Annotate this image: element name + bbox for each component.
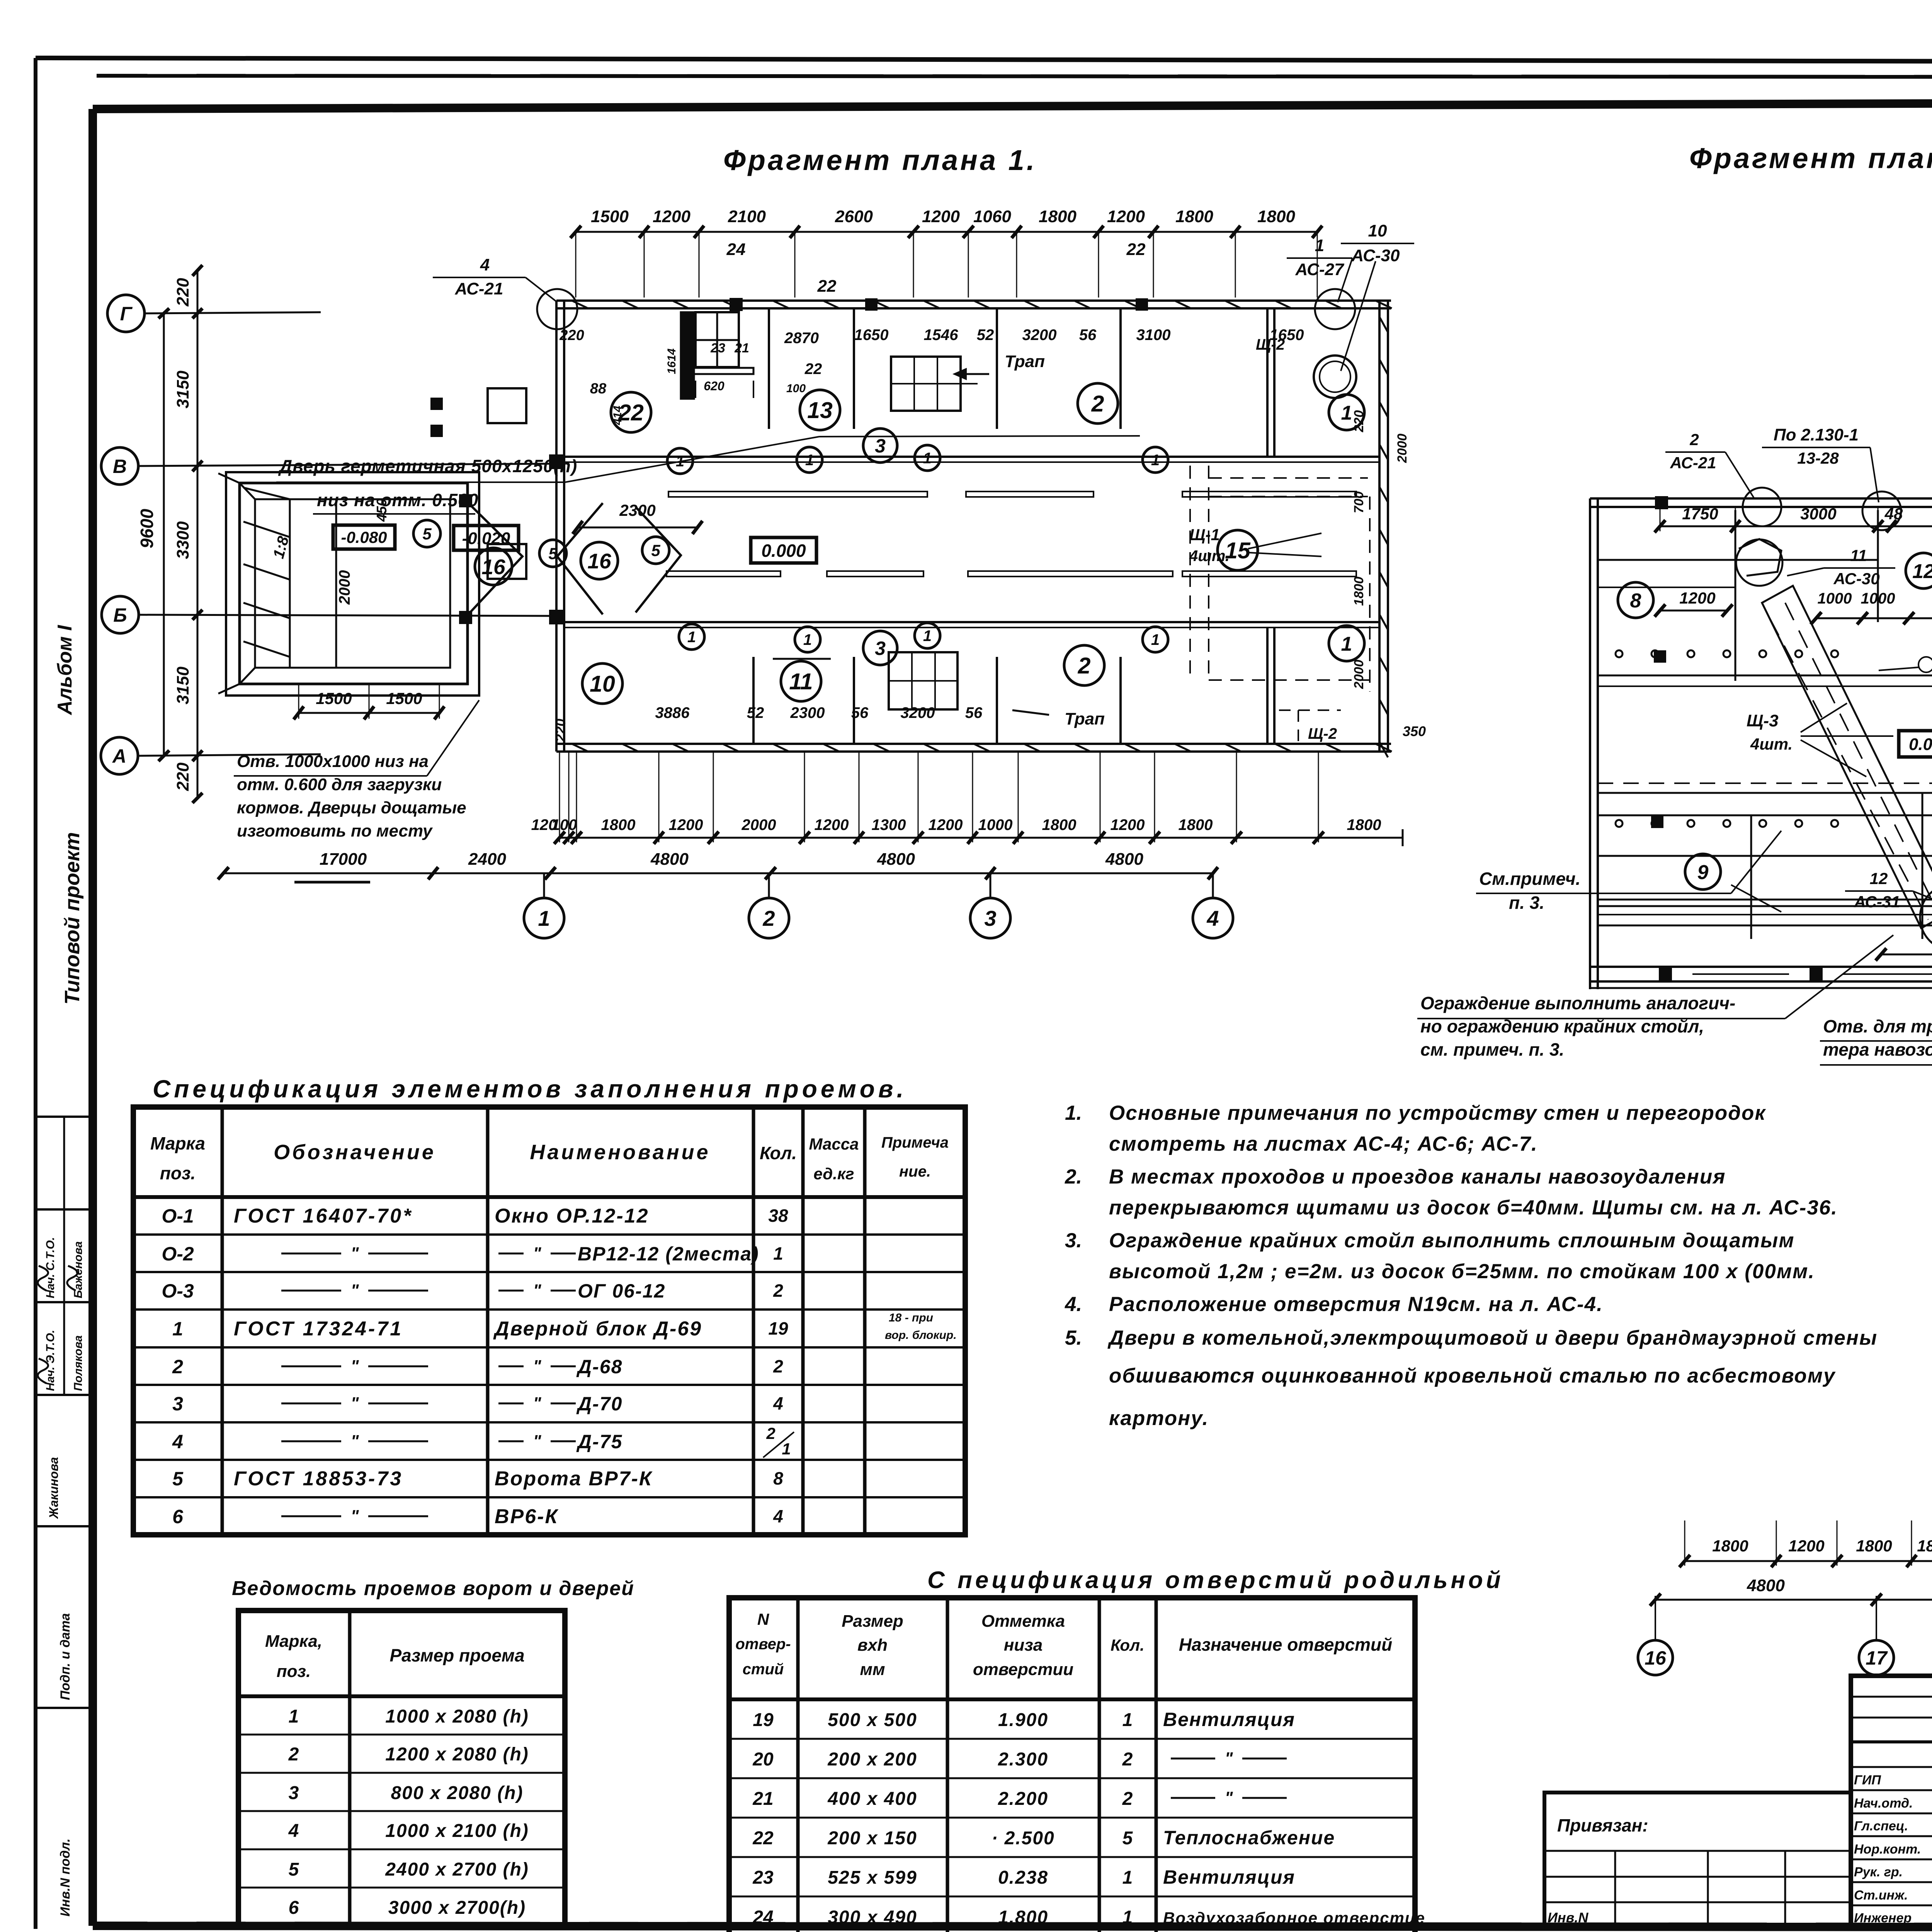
svg-text:220: 220 <box>559 327 584 344</box>
svg-text:Инв.N: Инв.N <box>1548 1910 1588 1925</box>
svg-text:2000: 2000 <box>1352 660 1366 689</box>
svg-text:1000 x 2100 (h): 1000 x 2100 (h) <box>385 1821 529 1841</box>
svg-text:Спецификация элементов заполне: Спецификация элементов заполнения проемо… <box>153 1075 907 1103</box>
svg-text:Д-75: Д-75 <box>576 1431 622 1452</box>
svg-text:В местах проходов и проездов: В местах проходов и проездов каналы наво… <box>1109 1165 1726 1188</box>
svg-text:4800: 4800 <box>1105 850 1143 869</box>
plan2 conveyor top circle <box>1736 539 1782 586</box>
svg-text:низ на отм. 0.500: низ на отм. 0.500 <box>317 490 478 510</box>
table spec elements grid <box>133 1107 965 1535</box>
svg-text:ние.: ние. <box>899 1163 931 1180</box>
plan1 bottom dimension chain detail <box>560 837 1318 839</box>
svg-text:О-2: О-2 <box>162 1243 194 1265</box>
svg-text:16: 16 <box>481 555 505 579</box>
plan1 column circle top left <box>537 289 577 329</box>
svg-text:38: 38 <box>768 1206 788 1226</box>
plan1 top exterior wall <box>556 299 1391 302</box>
svg-text:поз.: поз. <box>160 1163 196 1183</box>
svg-text:1750: 1750 <box>1682 505 1718 523</box>
svg-text:Воздухозаборное отверстие: Воздухозаборное отверстие <box>1163 1909 1425 1927</box>
svg-text:тера навозоудаления: тера навозоудаления <box>1823 1039 1932 1060</box>
svg-text:кормов. Дверцы дощатые: кормов. Дверцы дощатые <box>237 798 466 817</box>
svg-text:Отметка: Отметка <box>981 1612 1065 1631</box>
svg-text:19: 19 <box>753 1710 774 1730</box>
svg-text:9600: 9600 <box>137 509 157 548</box>
svg-text:Фрагмент плана 1.: Фрагмент плана 1. <box>723 144 1037 176</box>
svg-text:10: 10 <box>1368 221 1387 240</box>
svg-text:": " <box>533 1244 542 1263</box>
svg-text:1: 1 <box>1341 633 1352 655</box>
svg-text:ГОСТ 16407-70*: ГОСТ 16407-70* <box>234 1205 413 1227</box>
plan1 row bubble В <box>101 447 138 485</box>
plan1 room bubble 15 <box>1218 530 1258 570</box>
svg-text:4800: 4800 <box>877 850 915 869</box>
plan1 door mark bubbles 1 lower corridor <box>679 624 704 650</box>
svg-text:Ст.инж.: Ст.инж. <box>1854 1888 1908 1903</box>
svg-text:19: 19 <box>768 1318 788 1338</box>
plan1 door mark bubbles 1 upper corridor <box>667 448 693 474</box>
plan1 annex junction squares <box>460 495 471 507</box>
svg-text:200 x 200: 200 x 200 <box>827 1749 917 1770</box>
svg-text:1: 1 <box>1122 1710 1133 1730</box>
svg-text:100: 100 <box>551 816 577 833</box>
svg-text:220: 220 <box>173 278 192 307</box>
svg-text:88: 88 <box>590 381 607 397</box>
svg-text:Фрагмент плана 2: Фрагмент плана 2 <box>1689 142 1932 174</box>
svg-text:1800: 1800 <box>1347 816 1381 833</box>
plan2 left wing left wall <box>1589 498 1591 989</box>
svg-text:12: 12 <box>1912 560 1932 583</box>
svg-text:Вентиляция: Вентиляция <box>1163 1866 1295 1888</box>
svg-text:": " <box>351 1507 359 1526</box>
plan1 row bubble Б <box>102 596 139 633</box>
svg-text:5: 5 <box>1122 1828 1133 1849</box>
plan1 row bubble А <box>101 737 138 774</box>
svg-text:Д-68: Д-68 <box>576 1356 622 1378</box>
svg-text:1.800: 1.800 <box>998 1907 1048 1928</box>
plan1 shchit-2 octagon <box>1314 355 1356 398</box>
svg-text:изготовить по месту: изготовить по месту <box>237 821 433 840</box>
svg-text:1: 1 <box>1315 236 1324 255</box>
svg-text:Примеча: Примеча <box>881 1134 949 1151</box>
svg-text:1500: 1500 <box>386 689 422 707</box>
svg-text:4.: 4. <box>1065 1293 1082 1316</box>
title block main box <box>1851 1676 1932 1928</box>
svg-text:11: 11 <box>789 669 813 694</box>
svg-text:Основные примечания по устр: Основные примечания по устройству стен и… <box>1109 1102 1766 1124</box>
svg-text:1200: 1200 <box>1788 1537 1824 1555</box>
svg-text:1800: 1800 <box>1712 1537 1748 1555</box>
svg-text:1546: 1546 <box>924 327 959 344</box>
svg-text:": " <box>351 1281 359 1300</box>
svg-text:1300: 1300 <box>872 816 906 833</box>
svg-text:5: 5 <box>548 544 558 563</box>
svg-text:200 x 150: 200 x 150 <box>827 1828 917 1849</box>
svg-text:800 x 2080 (h): 800 x 2080 (h) <box>391 1783 524 1803</box>
svg-text:1: 1 <box>1151 631 1160 648</box>
svg-text:2.300: 2.300 <box>998 1749 1048 1770</box>
svg-text:Щ-3: Щ-3 <box>1747 711 1779 730</box>
svg-text:1200: 1200 <box>669 816 703 833</box>
svg-text:По 2.130-1: По 2.130-1 <box>1774 425 1859 444</box>
svg-text:1800: 1800 <box>1917 1537 1932 1555</box>
plan2 bubble 12 <box>1906 553 1932 588</box>
svg-text:высотой 1,2м ; е=2м. из дос: высотой 1,2м ; е=2м. из досок б=25мм. по… <box>1109 1260 1815 1283</box>
svg-text:2400 x 2700 (h): 2400 x 2700 (h) <box>385 1859 529 1880</box>
svg-text:ВР12-12 (2места): ВР12-12 (2места) <box>578 1243 759 1265</box>
plan1 column circle top right <box>1315 289 1355 329</box>
plan1 right exterior wall <box>1378 301 1381 752</box>
svg-text:5: 5 <box>422 525 432 543</box>
plan2 conveyor incline <box>1762 586 1932 928</box>
svg-text:Размер: Размер <box>842 1612 903 1631</box>
svg-text:220: 220 <box>553 719 568 742</box>
svg-text:2: 2 <box>773 1356 783 1376</box>
plan1 corridor lower partition <box>564 621 1379 623</box>
svg-text:Дверной блок Д-69: Дверной блок Д-69 <box>493 1318 702 1340</box>
svg-text:1500: 1500 <box>591 207 629 226</box>
svg-text:ГОСТ 17324-71: ГОСТ 17324-71 <box>234 1318 403 1340</box>
svg-text:2.: 2. <box>1065 1165 1082 1188</box>
svg-text:5: 5 <box>289 1859 299 1880</box>
plan1 row bubble Г <box>107 295 145 332</box>
svg-text:13-28: 13-28 <box>1797 449 1839 467</box>
svg-text:1800: 1800 <box>1175 207 1213 226</box>
svg-text:ед.кг: ед.кг <box>813 1165 854 1183</box>
svg-text:1.900: 1.900 <box>998 1710 1048 1730</box>
svg-text:Нач. С.Т.О.: Нач. С.Т.О. <box>44 1237 57 1298</box>
svg-text:-0.080: -0.080 <box>341 528 387 546</box>
svg-text:2400: 2400 <box>468 850 506 869</box>
svg-text:48: 48 <box>1884 505 1903 523</box>
svg-text:Отв. 1000x1000 низ на: Отв. 1000x1000 низ на <box>237 752 429 771</box>
svg-text:Отв. для транспор-: Отв. для транспор- <box>1823 1016 1932 1036</box>
svg-text:1800: 1800 <box>1352 577 1366 606</box>
svg-text:Кол.: Кол. <box>760 1143 797 1163</box>
svg-text:1800: 1800 <box>1042 816 1077 833</box>
svg-text:": " <box>533 1281 542 1300</box>
svg-text:Кол.: Кол. <box>1111 1636 1145 1654</box>
svg-text:1: 1 <box>923 628 932 645</box>
svg-text:2: 2 <box>773 1281 783 1301</box>
svg-text:": " <box>1225 1749 1233 1768</box>
svg-text:1200: 1200 <box>815 816 849 833</box>
svg-text:3: 3 <box>172 1393 183 1415</box>
plan1 annex outline <box>226 472 479 696</box>
svg-text:Размер проема: Размер проема <box>389 1645 524 1665</box>
svg-text:Рук. гр.: Рук. гр. <box>1854 1865 1903 1879</box>
svg-text:620: 620 <box>704 379 724 393</box>
svg-text:52: 52 <box>977 327 994 344</box>
svg-text:В: В <box>113 456 127 477</box>
plan2 left wing top exterior wall <box>1590 497 1932 500</box>
svg-text:3100: 3100 <box>1136 327 1171 344</box>
svg-text:56: 56 <box>851 704 869 721</box>
svg-text:но ограждению крайних стойл,: но ограждению крайних стойл, <box>1420 1016 1704 1036</box>
svg-text:Ведомость проемов ворот и двер: Ведомость проемов ворот и дверей <box>232 1577 634 1600</box>
plan1 electric room detail block <box>681 312 694 399</box>
plan1 level mark -0.020 <box>454 526 519 550</box>
svg-text:21: 21 <box>734 341 749 355</box>
svg-text:· 2.500: · 2.500 <box>992 1828 1054 1849</box>
svg-text:56: 56 <box>965 704 983 721</box>
svg-text:1200: 1200 <box>929 816 963 833</box>
svg-text:Расположение отверстия N19см: Расположение отверстия N19см. на л. АС-4… <box>1109 1293 1603 1316</box>
svg-text:2: 2 <box>1689 430 1699 449</box>
svg-text:21: 21 <box>752 1789 773 1809</box>
svg-text:20: 20 <box>752 1749 774 1770</box>
svg-text:1: 1 <box>923 450 932 467</box>
svg-text:16: 16 <box>587 549 611 573</box>
svg-text:Инженер: Инженер <box>1854 1911 1912 1925</box>
svg-text:1800: 1800 <box>1179 816 1213 833</box>
svg-text:1614: 1614 <box>665 348 678 374</box>
svg-text:1000: 1000 <box>1818 590 1852 607</box>
svg-text:смотреть на листах АС-4; А: смотреть на листах АС-4; АС-6; АС-7. <box>1109 1133 1538 1155</box>
svg-text:3: 3 <box>875 435 886 457</box>
plan2 left wing bottom wall <box>1590 966 1932 968</box>
svg-text:300 x 490: 300 x 490 <box>828 1907 917 1928</box>
svg-text:Ограждение выполнить аналогич-: Ограждение выполнить аналогич- <box>1420 993 1735 1013</box>
svg-text:23: 23 <box>752 1867 774 1888</box>
svg-text:1: 1 <box>289 1706 299 1727</box>
svg-text:2: 2 <box>1091 391 1104 417</box>
table vedomost grid <box>238 1611 565 1926</box>
svg-text:11: 11 <box>1850 546 1867 565</box>
svg-text:22: 22 <box>752 1828 774 1849</box>
svg-text:10: 10 <box>590 671 615 697</box>
plan1 interior partitions lower rooms <box>752 657 755 744</box>
svg-text:2000: 2000 <box>1395 434 1410 463</box>
plan1 upper window block <box>891 357 961 411</box>
plan2 left wing feeding row dots <box>1616 650 1622 657</box>
svg-text:3200: 3200 <box>1022 327 1057 344</box>
plan1 room bubble 2 upper <box>1078 383 1118 423</box>
svg-text:": " <box>533 1357 542 1376</box>
svg-text:Альбом I: Альбом I <box>54 624 76 716</box>
plan2 left wing lower stall lines <box>1598 815 1932 816</box>
svg-text:Ворота ВР7-К: Ворота ВР7-К <box>495 1468 653 1490</box>
svg-text:3150: 3150 <box>173 667 192 704</box>
plan1 dimension 2300 <box>578 527 697 529</box>
svg-text:8: 8 <box>773 1468 783 1488</box>
svg-text:3: 3 <box>289 1783 299 1803</box>
svg-text:24: 24 <box>752 1907 773 1928</box>
svg-text:220: 220 <box>1352 410 1366 433</box>
svg-text:3: 3 <box>984 906 996 930</box>
plan2 left wing dashed manure line <box>1598 782 1932 784</box>
svg-text:С пецификация отверстий роди: С пецификация отверстий родильной <box>927 1567 1504 1594</box>
svg-text:2: 2 <box>288 1744 299 1765</box>
svg-text:1060: 1060 <box>973 207 1011 226</box>
plan1 room bubble 16 left <box>475 548 512 585</box>
svg-text:Полякова: Полякова <box>72 1335 85 1391</box>
svg-text:": " <box>351 1244 359 1263</box>
svg-text:1200: 1200 <box>653 207 690 226</box>
svg-text:Типовой проект: Типовой проект <box>61 832 84 1005</box>
sheet outer border <box>36 58 1932 63</box>
svg-text:Теплоснабжение: Теплоснабжение <box>1163 1827 1335 1849</box>
svg-text:Дверь герметичная 500x1250(h): Дверь герметичная 500x1250(h) <box>278 456 577 476</box>
svg-text:Д-70: Д-70 <box>576 1393 622 1415</box>
sheet inner frame <box>93 101 1932 109</box>
plan2 left wing dim row 1750 3000 48 3550 100 5850 <box>1660 526 1932 527</box>
svg-text:220: 220 <box>173 762 192 791</box>
plan1 room bubble 13 <box>800 390 840 430</box>
plan1 lower window block <box>889 652 957 709</box>
svg-text:3.: 3. <box>1065 1229 1082 1252</box>
svg-text:700: 700 <box>1352 492 1366 514</box>
plan1 stall mark bubbles 5 <box>413 520 440 547</box>
svg-text:2: 2 <box>172 1356 183 1378</box>
svg-text:0.238: 0.238 <box>998 1867 1048 1888</box>
svg-text:О-1: О-1 <box>162 1205 194 1227</box>
svg-text:3200: 3200 <box>901 704 935 721</box>
plan1 annex dimension 1500 1500 <box>299 712 439 714</box>
plan1 room bubble 22 <box>611 392 651 432</box>
svg-text:О-3: О-3 <box>162 1280 194 1302</box>
svg-text:поз.: поз. <box>277 1662 311 1681</box>
svg-text:": " <box>351 1432 359 1451</box>
svg-text:-0.020: -0.020 <box>462 529 510 548</box>
svg-text:Гл.спец.: Гл.спец. <box>1854 1819 1908 1833</box>
svg-text:4: 4 <box>1206 906 1219 930</box>
plan1 axis bubbles 1-4 <box>543 873 545 898</box>
svg-text:Марка,: Марка, <box>265 1632 322 1651</box>
svg-text:Жакинова: Жакинова <box>47 1457 61 1519</box>
svg-text:Вентиляция: Вентиляция <box>1163 1709 1295 1730</box>
svg-text:13: 13 <box>807 398 833 423</box>
svg-text:2: 2 <box>762 906 775 930</box>
svg-text:Подп. и дата: Подп. и дата <box>58 1613 73 1700</box>
svg-text:4шт.: 4шт. <box>1189 548 1230 565</box>
plan2 bubble 9 <box>1685 854 1721 889</box>
svg-text:9: 9 <box>1697 861 1709 884</box>
plan1 funnel chevrons left <box>468 502 522 615</box>
svg-text:Ограждение крайних стойл вы: Ограждение крайних стойл выполнить сплош… <box>1109 1229 1795 1252</box>
plan1 level mark -0.080 annex <box>333 525 395 549</box>
svg-text:отверстии: отверстии <box>973 1660 1073 1679</box>
svg-text:ВР6-К: ВР6-К <box>495 1505 558 1528</box>
svg-text:Нач.отд.: Нач.отд. <box>1854 1796 1913 1811</box>
plan1 bottom dimension chain axes <box>223 872 1213 874</box>
svg-text:4: 4 <box>480 255 490 274</box>
svg-text:2.200: 2.200 <box>998 1789 1048 1809</box>
svg-text:2: 2 <box>766 1424 775 1442</box>
svg-text:2300: 2300 <box>619 501 655 519</box>
svg-text:1000 x 2080 (h): 1000 x 2080 (h) <box>385 1706 529 1727</box>
svg-text:Наименование: Наименование <box>530 1141 710 1164</box>
plan1 top dimension chain <box>576 231 1317 233</box>
plan1 room bubble 3 lower <box>863 631 897 665</box>
title block document number <box>1851 1740 1932 1743</box>
svg-text:0.000: 0.000 <box>761 541 806 561</box>
svg-text:2: 2 <box>1078 653 1091 679</box>
svg-text:414: 414 <box>611 406 624 425</box>
plan2 left wing lower stall line <box>1598 855 1932 857</box>
svg-text:АС-30: АС-30 <box>1833 570 1879 588</box>
svg-text:500 x 500: 500 x 500 <box>828 1710 917 1730</box>
svg-text:1000: 1000 <box>978 816 1013 833</box>
svg-text:перекрываются щитами из досо: перекрываются щитами из досок б=40мм. Щи… <box>1109 1196 1838 1219</box>
plan1 left vertical dimensions <box>197 270 199 798</box>
svg-text:1200: 1200 <box>1111 816 1145 833</box>
svg-text:1: 1 <box>687 629 696 646</box>
svg-text:1: 1 <box>538 906 550 930</box>
svg-text:2600: 2600 <box>835 207 873 226</box>
svg-text:1650: 1650 <box>854 327 889 344</box>
svg-text:4800: 4800 <box>1747 1576 1785 1595</box>
svg-text:1800: 1800 <box>1257 207 1295 226</box>
plan2 axis bubbles 16-19 <box>1655 1596 1656 1640</box>
svg-text:1800: 1800 <box>601 816 636 833</box>
svg-text:1: 1 <box>782 1440 791 1458</box>
plan2 bottom dimension chain axes <box>1655 1599 1932 1601</box>
svg-text:стий: стий <box>743 1661 784 1678</box>
svg-text:2300: 2300 <box>790 704 825 721</box>
svg-text:см. примеч. п. 3.: см. примеч. п. 3. <box>1420 1039 1564 1060</box>
svg-text:5: 5 <box>651 541 660 560</box>
svg-text:6: 6 <box>172 1506 184 1527</box>
svg-text:Щ-2: Щ-2 <box>1308 725 1337 742</box>
svg-text:350: 350 <box>1403 723 1426 739</box>
plan1 left exterior wall <box>555 301 558 752</box>
svg-text:3300: 3300 <box>173 521 192 559</box>
svg-text:Нач. Э.Т.О.: Нач. Э.Т.О. <box>44 1330 57 1391</box>
svg-text:См.примеч.: См.примеч. <box>1479 869 1580 889</box>
svg-text:3000 x 2700(h): 3000 x 2700(h) <box>388 1898 526 1918</box>
plan1 level mark 0.000 <box>751 537 816 563</box>
svg-text:Г: Г <box>120 303 133 325</box>
svg-text:17: 17 <box>1866 1647 1888 1669</box>
plan1 shchit-1 dashed channel <box>1189 466 1191 680</box>
svg-text:1: 1 <box>1341 402 1352 424</box>
svg-text:1.: 1. <box>1065 1102 1082 1124</box>
plan2 conveyor bottom circle <box>1920 884 1932 951</box>
svg-text:3886: 3886 <box>655 704 690 721</box>
plan2 level 0.000 <box>1899 731 1932 757</box>
svg-text:Привязан:: Привязан: <box>1557 1815 1648 1835</box>
plan2 bubble 8 <box>1618 582 1653 618</box>
plan1 room bubble 16 right <box>581 542 618 579</box>
svg-text:1800: 1800 <box>1856 1537 1892 1555</box>
svg-text:525 x 599: 525 x 599 <box>828 1867 917 1888</box>
svg-text:отм. 0.600 для загрузки: отм. 0.600 для загрузки <box>237 775 442 794</box>
svg-text:1: 1 <box>1122 1867 1133 1888</box>
svg-text:1: 1 <box>805 452 814 469</box>
svg-text:16: 16 <box>1645 1647 1667 1669</box>
svg-text:": " <box>533 1394 542 1413</box>
svg-text:1200: 1200 <box>922 207 960 226</box>
svg-text:2000: 2000 <box>336 570 353 605</box>
plan1 wheel stop bars upper <box>668 492 927 497</box>
svg-text:низа: низа <box>1004 1636 1043 1655</box>
svg-text:Инв.N подл.: Инв.N подл. <box>58 1838 73 1917</box>
svg-text:17000: 17000 <box>320 850 367 869</box>
svg-text:4шт.: 4шт. <box>1750 735 1793 753</box>
title block small left box <box>1544 1793 1851 1928</box>
svg-text:Марка: Марка <box>150 1133 205 1153</box>
svg-text:1800: 1800 <box>1039 207 1077 226</box>
svg-text:1: 1 <box>172 1318 183 1340</box>
svg-text:56: 56 <box>1079 327 1097 344</box>
plan1 door squares <box>488 388 526 423</box>
left margin signature boxes <box>36 1116 93 1118</box>
svg-text:22: 22 <box>1126 240 1146 259</box>
svg-text:картону.: картону. <box>1109 1407 1209 1430</box>
plan1 room bubble 11 <box>781 661 821 701</box>
plan2 left wing manure channel lines <box>1598 905 1932 907</box>
